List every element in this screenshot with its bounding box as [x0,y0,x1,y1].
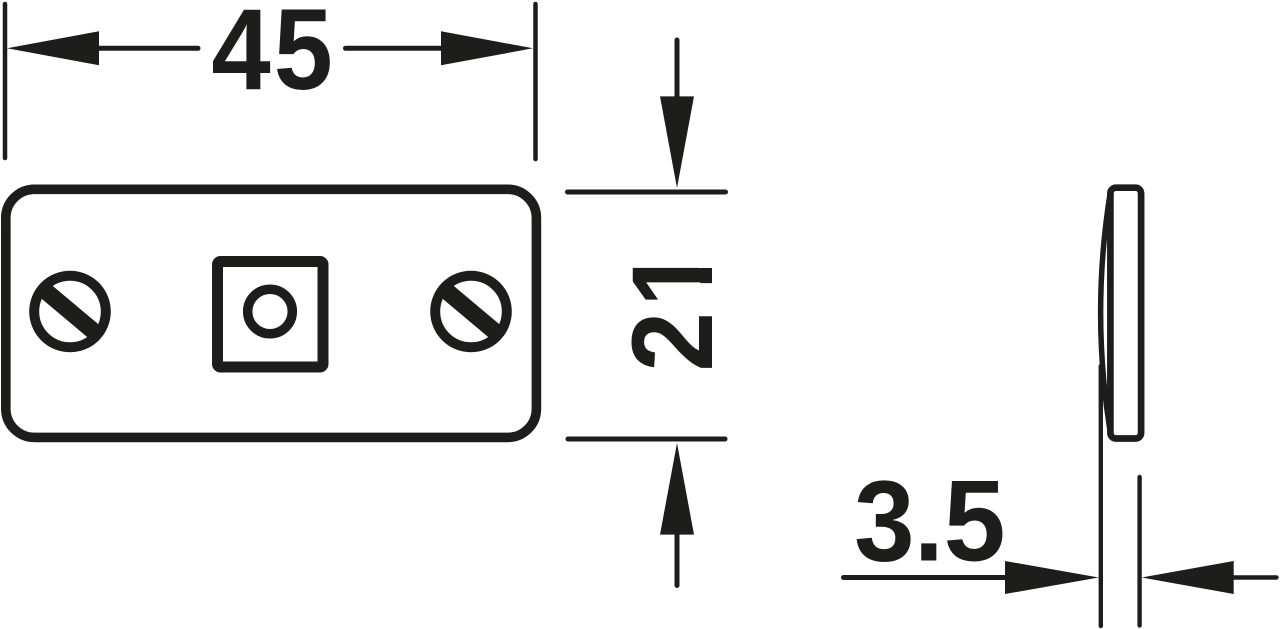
svg-text:5: 5 [274,0,333,114]
svg-text:2: 2 [608,312,737,372]
svg-text:.: . [914,456,944,585]
svg-text:3: 3 [854,457,914,585]
svg-text:5: 5 [944,457,1006,585]
svg-text:4: 4 [211,0,271,114]
